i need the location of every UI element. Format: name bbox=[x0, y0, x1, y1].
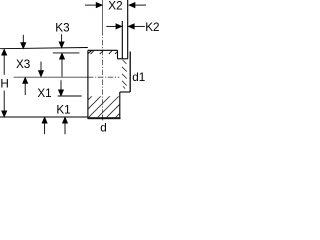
step down at right end of top edge bbox=[117, 50, 119, 59]
horizontal centerline bbox=[14, 76, 120, 78]
svg-text:d1: d1 bbox=[132, 71, 145, 84]
body top edge bbox=[88, 49, 118, 51]
svg-text:K1: K1 bbox=[56, 103, 70, 116]
dimension K3: down arrow to line A bbox=[59, 34, 64, 47]
svg-text:K2: K2 bbox=[145, 21, 159, 34]
vertical centerline / X2 datum extension bbox=[102, 0, 104, 120]
svg-text:H: H bbox=[0, 78, 8, 91]
dimension H bbox=[2, 49, 7, 116]
dimension K2 bbox=[106, 24, 145, 29]
svg-text:K3: K3 bbox=[55, 22, 69, 35]
lower right edge bbox=[119, 92, 121, 118]
hatching: bottom block bbox=[66, 90, 143, 122]
extension line L6 (body bottom) bbox=[0, 116, 88, 118]
dimension K3: up arrow to line B bbox=[60, 53, 65, 76]
hatching: right band bbox=[122, 60, 127, 89]
spigot left wall bbox=[121, 21, 123, 59]
body left edge bbox=[87, 50, 89, 118]
shoulder to spigot bbox=[118, 58, 128, 60]
dimension K1 bbox=[59, 80, 68, 134]
svg-text:d: d bbox=[100, 121, 107, 134]
svg-text:X1: X1 bbox=[37, 87, 51, 100]
dimension X2 bbox=[85, 3, 146, 8]
step at y92 bbox=[120, 91, 130, 93]
extension line B (short, under K3) bbox=[53, 52, 80, 54]
svg-text:X2: X2 bbox=[108, 0, 122, 12]
extension line L4 (bore bottom) bbox=[58, 95, 82, 97]
spigot right wall + X2 extension bbox=[127, 0, 129, 59]
hatching: top wall bbox=[91, 51, 118, 54]
dimension X3 bbox=[21, 35, 28, 95]
corner break diagonal bbox=[88, 51, 92, 54]
socket right edge bbox=[129, 52, 131, 93]
extension line A (socket top datum) bbox=[0, 48, 88, 49]
dimension X1 bbox=[39, 62, 47, 135]
body bottom edge (thick) bbox=[88, 117, 121, 119]
svg-text:X3: X3 bbox=[16, 58, 30, 71]
part outline bbox=[88, 0, 130, 119]
